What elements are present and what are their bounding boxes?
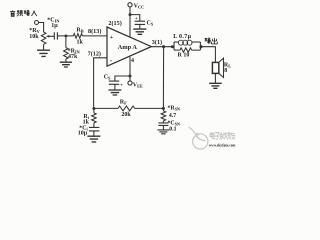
LR left node	[171, 45, 174, 48]
svg-text:47k: 47k	[68, 54, 78, 60]
svg-text:1μ: 1μ	[51, 23, 58, 29]
wire CIN to node	[57, 35, 73, 37]
svg-text:8(13): 8(13)	[88, 28, 101, 35]
node on pin2	[129, 13, 132, 16]
output wire	[151, 46, 174, 48]
ground (Ci)	[87, 136, 100, 142]
ground (pot)	[37, 50, 50, 56]
wire Ri to Ci	[93, 123, 95, 128]
svg-text:10k: 10k	[29, 34, 39, 40]
snubber wire down	[162, 47, 164, 109]
potentiometer RV	[41, 32, 46, 44]
wire node down	[65, 36, 67, 48]
node feedback left	[92, 107, 95, 110]
svg-text:10μ: 10μ	[78, 131, 88, 137]
LR network right connector	[199, 42, 201, 50]
svg-text:R 10: R 10	[178, 53, 190, 59]
capacitor Ci	[89, 127, 100, 130]
svg-text:20k: 20k	[121, 112, 131, 118]
ground (CS top)	[133, 29, 146, 34]
svg-text:L 0.7μ: L 0.7μ	[173, 34, 191, 40]
capacitor CS (top)	[135, 21, 145, 24]
svg-text:CS: CS	[147, 21, 154, 27]
wire inverting input	[94, 58, 107, 109]
pin 4 wire	[129, 57, 131, 81]
svg-text:Amp A: Amp A	[118, 44, 138, 51]
node feedback right	[162, 107, 165, 110]
svg-text:CS: CS	[104, 74, 111, 80]
wire node down to Ri	[93, 109, 95, 113]
feedback wire	[94, 107, 163, 109]
capacitor CSN	[158, 123, 168, 126]
output node	[162, 45, 165, 48]
capacitor CS (bottom)	[109, 81, 119, 84]
wire CS to ground	[139, 24, 141, 29]
wire to speaker	[200, 47, 215, 63]
svg-text:www.elecfans.com: www.elecfans.com	[209, 142, 236, 147]
wire Ci to ground	[93, 131, 95, 136]
svg-text:8: 8	[224, 68, 227, 74]
svg-text:*CSN: *CSN	[168, 120, 180, 126]
svg-text:4: 4	[131, 58, 134, 64]
svg-text:7(12): 7(12)	[88, 51, 101, 58]
svg-text:+: +	[120, 84, 123, 89]
svg-text:VCC: VCC	[134, 3, 145, 9]
label 输出 (output)	[205, 38, 218, 44]
svg-text:+: +	[110, 34, 114, 41]
ground (CS bottom)	[108, 90, 121, 95]
resistor RSN	[161, 108, 166, 121]
input terminal	[35, 21, 39, 25]
svg-text:VEE: VEE	[133, 83, 143, 89]
VEE terminal	[128, 81, 132, 85]
svg-text:RB: RB	[76, 28, 83, 34]
svg-text:*RSN: *RSN	[168, 106, 180, 112]
resistor R 10	[174, 48, 200, 52]
wire to CS bottom	[115, 76, 130, 81]
ground (CSN)	[157, 130, 169, 134]
pin 2 wire	[129, 7, 131, 37]
svg-text:0.1: 0.1	[169, 126, 176, 132]
inductor L 0.7u	[174, 41, 179, 43]
svg-text:RF: RF	[120, 99, 127, 105]
wire input to pot	[39, 23, 44, 33]
wire CS bottom to ground	[114, 84, 116, 90]
wiper arrow	[49, 35, 55, 37]
resistor RF	[118, 106, 135, 111]
node on pin4	[129, 75, 132, 78]
speaker RL	[212, 62, 218, 73]
wire RSN to CSN	[162, 121, 164, 123]
wire CSN to ground	[162, 125, 164, 129]
VCC terminal	[128, 3, 132, 7]
svg-text:1k: 1k	[77, 40, 84, 46]
resistor Ri	[92, 113, 97, 123]
watermark logo	[189, 127, 208, 149]
ground (RIN)	[60, 62, 72, 67]
wire to CS top	[130, 15, 140, 22]
svg-text:2(15): 2(15)	[108, 20, 121, 27]
label 音频输入 (audio input)	[10, 10, 37, 16]
wire RB to opamp	[83, 35, 108, 37]
LR network left connector	[173, 42, 175, 50]
resistor RB	[73, 34, 82, 39]
svg-text:3(1): 3(1)	[152, 39, 162, 46]
svg-text:4.7: 4.7	[169, 113, 176, 119]
wire speaker to ground	[214, 73, 216, 83]
ground (speaker)	[209, 83, 222, 88]
resistor RIN	[64, 48, 69, 59]
op-amp U1 Amp A	[107, 27, 151, 66]
capacitor CIN	[54, 32, 57, 39]
LR right node	[199, 45, 202, 48]
wire pot to ground	[43, 44, 45, 50]
watermark text 电子发烧友	[210, 132, 235, 139]
node junction	[64, 34, 67, 37]
wire RIN to ground	[65, 59, 67, 62]
